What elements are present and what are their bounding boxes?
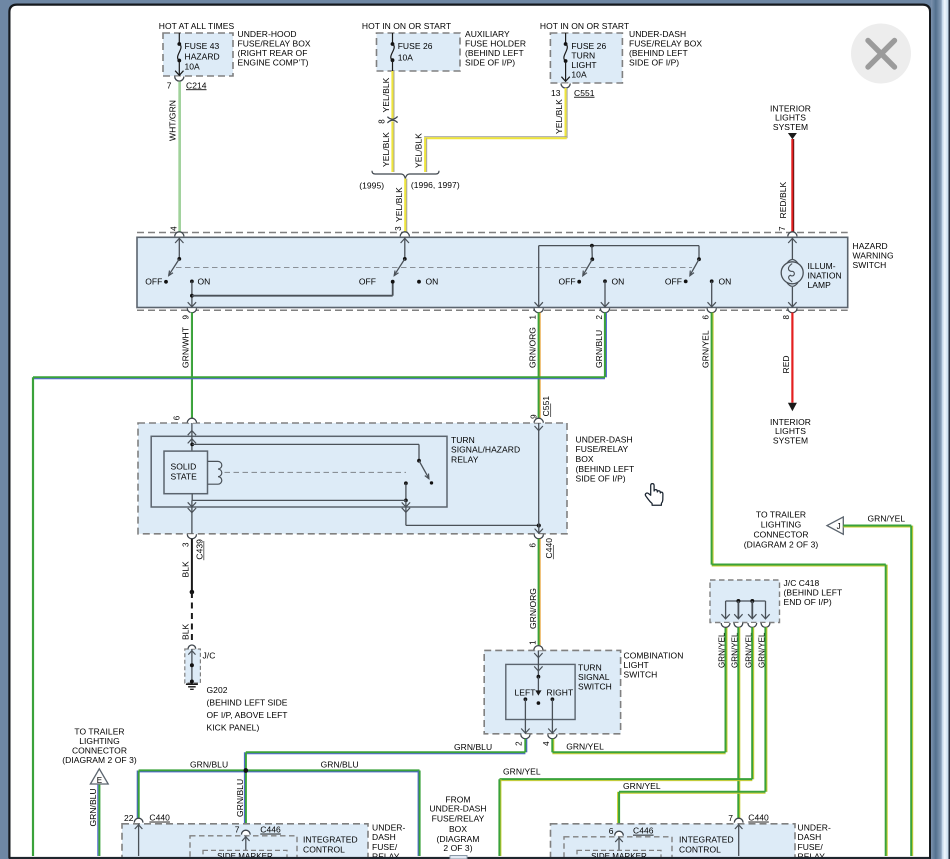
svg-text:KICK PANEL): KICK PANEL) xyxy=(207,723,260,733)
svg-text:FUSE/RELAY: FUSE/RELAY xyxy=(576,444,629,454)
switch S4 ON contact xyxy=(710,279,714,283)
svg-text:LIGHT: LIGHT xyxy=(571,60,596,70)
svg-text:GRN/BLU: GRN/BLU xyxy=(454,742,492,752)
resize handle xyxy=(450,856,467,859)
svg-text:TURN: TURN xyxy=(451,435,475,445)
switch S4 arm xyxy=(690,259,699,275)
J/C C418 bus bar xyxy=(726,600,766,602)
svg-text:HAZARD: HAZARD xyxy=(853,241,888,251)
svg-text:(RIGHT REAR OF: (RIGHT REAR OF xyxy=(238,48,308,58)
ground G202 xyxy=(190,680,194,684)
bus S1-S2 wire xyxy=(192,295,393,297)
fuse F43 HAZARD 10A xyxy=(178,33,180,44)
svg-text:GRN/BLU: GRN/BLU xyxy=(321,759,359,769)
switch S4 pole xyxy=(698,246,700,260)
wire GRN/BLU pin2 xyxy=(604,313,606,378)
right band light xyxy=(942,0,949,859)
svg-text:GRN/YEL: GRN/YEL xyxy=(623,781,661,791)
svg-text:6: 6 xyxy=(528,543,537,548)
relay output leg xyxy=(405,500,407,525)
svg-text:GRN/ORG: GRN/ORG xyxy=(528,588,538,629)
relay switch pole xyxy=(418,444,420,460)
pin 1 bump xyxy=(534,646,543,651)
svg-text:TO TRAILER: TO TRAILER xyxy=(74,726,124,736)
pin 7 bump C440 right xyxy=(734,818,743,822)
integrated control unit right (dashed) xyxy=(564,837,672,859)
svg-text:(DIAGRAM 2 OF 3): (DIAGRAM 2 OF 3) xyxy=(62,755,137,765)
svg-text:FUSE/RELAY BOX: FUSE/RELAY BOX xyxy=(629,38,702,48)
S1 ON to bus junction xyxy=(191,281,193,307)
svg-text:WARNING: WARNING xyxy=(853,250,894,260)
wire YEL/BLK to hazard pin 3 xyxy=(404,179,406,233)
svg-text:22: 22 xyxy=(124,813,134,823)
svg-text:OFF: OFF xyxy=(558,277,575,287)
switch S2 pole xyxy=(404,237,406,259)
svg-text:DASH: DASH xyxy=(372,832,396,842)
svg-text:ON: ON xyxy=(612,277,625,287)
wire GRN/YEL from pin4 xyxy=(551,739,553,753)
turn signal arm xyxy=(537,677,539,693)
relay output junction xyxy=(537,523,541,527)
svg-text:GRN/WHT: GRN/WHT xyxy=(181,327,191,368)
svg-text:ON: ON xyxy=(719,277,732,287)
svg-text:6: 6 xyxy=(702,315,711,320)
wire YEL/BLK horizontal 1996-1997 branch xyxy=(424,137,567,139)
solid state module xyxy=(164,451,208,494)
pin 2 bump xyxy=(521,734,530,739)
svg-text:J/C: J/C xyxy=(203,651,216,661)
svg-text:SWITCH: SWITCH xyxy=(853,260,887,270)
connector triangle J xyxy=(827,517,843,534)
svg-text:2: 2 xyxy=(515,741,524,746)
svg-text:6: 6 xyxy=(609,826,614,836)
svg-text:(BEHIND LEFT: (BEHIND LEFT xyxy=(465,48,524,58)
relay pin 3 bump C439 xyxy=(187,534,196,539)
svg-text:BOX: BOX xyxy=(576,454,594,464)
wire WHT/GRN xyxy=(178,82,180,233)
illumination lamp bulb xyxy=(781,262,803,284)
year split brace xyxy=(372,171,439,179)
J/C C418 leg 1 xyxy=(725,601,727,619)
pin 7 bump xyxy=(788,232,797,237)
svg-text:GRN/BLU: GRN/BLU xyxy=(594,330,604,368)
pin 3 bump xyxy=(400,232,409,237)
svg-text:(BEHIND LEFT: (BEHIND LEFT xyxy=(784,587,843,597)
svg-text:LIGHT: LIGHT xyxy=(624,660,649,670)
svg-text:DASH: DASH xyxy=(798,832,822,842)
svg-text:C446: C446 xyxy=(633,826,654,836)
page bottom edge xyxy=(9,857,931,859)
pin 7 bump C446 xyxy=(241,830,250,834)
pin 4 bump xyxy=(175,232,184,237)
svg-text:13: 13 xyxy=(551,88,561,98)
pin 6 lead right xyxy=(618,837,620,851)
close button xyxy=(851,24,911,84)
svg-text:7: 7 xyxy=(167,80,172,90)
svg-text:CONNECTOR: CONNECTOR xyxy=(753,529,808,539)
svg-text:FUSE 26: FUSE 26 xyxy=(571,41,606,51)
switch S1 pole xyxy=(178,237,180,259)
side marker box right (dashed) xyxy=(577,850,661,859)
svg-text:CONNECTOR: CONNECTOR xyxy=(72,746,127,756)
hazard switch connector dash line top xyxy=(137,232,848,234)
svg-text:RED/BLK: RED/BLK xyxy=(778,181,788,218)
switch S4 OFF contact xyxy=(684,280,688,284)
joint connector J/C xyxy=(185,649,201,683)
svg-text:(DIAGRAM 2 OF 3): (DIAGRAM 2 OF 3) xyxy=(744,539,819,549)
svg-text:C446: C446 xyxy=(260,825,281,835)
system arrow down xyxy=(788,133,797,139)
svg-text:WHT/GRN: WHT/GRN xyxy=(168,100,178,141)
relay pin 6 bump xyxy=(187,418,196,423)
svg-text:STATE: STATE xyxy=(171,472,198,482)
svg-text:OF I/P, ABOVE LEFT: OF I/P, ABOVE LEFT xyxy=(207,710,288,720)
svg-text:C551: C551 xyxy=(541,396,551,417)
switch S3 ON contact xyxy=(603,279,607,283)
relay actuation dashed link xyxy=(225,471,407,473)
svg-text:LIGHTING: LIGHTING xyxy=(79,736,120,746)
svg-text:10A: 10A xyxy=(571,69,587,79)
svg-text:HOT IN ON OR START: HOT IN ON OR START xyxy=(362,21,451,31)
svg-text:ON: ON xyxy=(426,277,439,287)
wire GRN/ORG relay to switch xyxy=(538,539,540,646)
svg-text:CONTROL: CONTROL xyxy=(679,845,721,855)
window background left xyxy=(0,0,9,859)
connector C214 pin 7 xyxy=(175,77,184,82)
svg-text:(BEHIND LEFT: (BEHIND LEFT xyxy=(576,464,635,474)
svg-text:C440: C440 xyxy=(544,538,554,559)
window background top xyxy=(0,0,950,4)
svg-text:RELAY: RELAY xyxy=(451,454,479,464)
svg-text:UNDER-DASH: UNDER-DASH xyxy=(629,29,686,39)
svg-text:3: 3 xyxy=(394,226,403,231)
switch S3 pole xyxy=(590,244,594,248)
under-dash fuse/relay box right (dashed) xyxy=(551,824,796,859)
svg-text:J/C C418: J/C C418 xyxy=(784,578,820,588)
pin 7 lead xyxy=(245,836,247,851)
pin 2 bump xyxy=(600,308,609,313)
svg-text:FUSE 43: FUSE 43 xyxy=(185,41,220,51)
wire GRN/BLU center drop xyxy=(245,752,247,831)
under-dash fuse box (dashed) xyxy=(550,33,622,83)
svg-text:SYSTEM: SYSTEM xyxy=(773,122,808,132)
svg-text:TO TRAILER: TO TRAILER xyxy=(756,509,806,519)
fuse F26 10A aux xyxy=(392,33,394,44)
svg-text:GRN/BLU: GRN/BLU xyxy=(235,779,245,817)
svg-text:7: 7 xyxy=(728,813,733,823)
svg-text:SWITCH: SWITCH xyxy=(578,681,612,691)
svg-text:LEFT: LEFT xyxy=(515,687,536,697)
svg-text:8: 8 xyxy=(782,315,791,320)
junction dot GRN/BLU redraw xyxy=(244,768,249,773)
wire GRN/BLU left drop xyxy=(32,377,34,856)
pin 1 bump xyxy=(534,308,543,313)
svg-text:GRN/YEL: GRN/YEL xyxy=(566,742,604,752)
wire RED pin8 xyxy=(791,313,793,403)
interior lights arrow bottom xyxy=(788,403,797,411)
switch feed xyxy=(537,650,539,676)
svg-text:C440: C440 xyxy=(748,813,769,823)
lamp to pin 8 xyxy=(791,287,793,308)
svg-text:FUSE/: FUSE/ xyxy=(372,842,398,852)
svg-text:7: 7 xyxy=(235,824,240,834)
wire GRN/YEL C418-2 to C440 xyxy=(737,627,739,820)
svg-text:YEL/BLK: YEL/BLK xyxy=(394,187,404,222)
connector C551 pin 13 xyxy=(561,84,570,89)
svg-text:SIDE OF I/P): SIDE OF I/P) xyxy=(465,57,515,67)
svg-text:GRN/YEL: GRN/YEL xyxy=(503,767,541,777)
svg-text:UNDER-: UNDER- xyxy=(798,823,831,833)
svg-text:HOT IN ON OR START: HOT IN ON OR START xyxy=(540,21,629,31)
svg-text:LIGHTING: LIGHTING xyxy=(761,519,802,529)
svg-text:BLK: BLK xyxy=(181,561,191,577)
wire GRN/BLU to pin22 xyxy=(139,769,246,771)
svg-text:4: 4 xyxy=(542,741,551,746)
svg-text:GRN/BLU: GRN/BLU xyxy=(88,788,98,826)
svg-text:SIGNAL: SIGNAL xyxy=(578,672,610,682)
C551 bump xyxy=(534,418,543,423)
pin 7 lead right xyxy=(738,824,740,856)
switch S2 ON contact xyxy=(417,280,421,284)
svg-text:RED: RED xyxy=(781,355,791,373)
relay ground leg xyxy=(191,500,193,533)
svg-text:GRN/YEL: GRN/YEL xyxy=(718,632,727,668)
connector triangle E xyxy=(90,769,108,784)
pin 22 lead xyxy=(138,824,140,856)
svg-text:YEL/BLK: YEL/BLK xyxy=(381,77,391,112)
wire GRN/BLU to right drop xyxy=(246,769,420,771)
svg-text:COMBINATION: COMBINATION xyxy=(624,650,684,660)
svg-text:SWITCH: SWITCH xyxy=(624,669,658,679)
svg-text:INTEGRATED: INTEGRATED xyxy=(303,834,358,844)
switch S2 OFF contact xyxy=(391,280,395,284)
pin 6 bump xyxy=(707,308,716,313)
svg-text:YEL/BLK: YEL/BLK xyxy=(554,99,564,134)
wire GRN/YEL right drop xyxy=(885,565,887,856)
hazard warning switch body xyxy=(137,237,848,307)
wire YEL/BLK from turn fuse xyxy=(564,88,566,138)
svg-text:UNDER-: UNDER- xyxy=(372,823,405,833)
svg-text:10A: 10A xyxy=(185,61,201,71)
svg-text:GRN/YEL: GRN/YEL xyxy=(701,330,711,368)
wire GRN/YEL C418-4 xyxy=(764,627,766,792)
svg-text:SIDE OF I/P): SIDE OF I/P) xyxy=(629,57,679,67)
svg-text:BOX: BOX xyxy=(449,824,467,834)
svg-text:OFF: OFF xyxy=(359,277,376,287)
svg-text:10A: 10A xyxy=(398,52,414,62)
wire BLK dashed continuation xyxy=(191,592,193,646)
wire GRN/YEL pin6 xyxy=(711,313,713,565)
joint connector J/C C418 (dashed) xyxy=(710,580,780,623)
pin 6 bump C446 right xyxy=(615,831,624,835)
svg-text:HAZARD: HAZARD xyxy=(185,51,220,61)
svg-text:LAMP: LAMP xyxy=(808,280,832,290)
svg-text:1: 1 xyxy=(529,315,538,320)
J/C C418 bumps xyxy=(721,623,730,627)
svg-text:FUSE/: FUSE/ xyxy=(798,842,824,852)
svg-text:FUSE/RELAY BOX: FUSE/RELAY BOX xyxy=(238,38,311,48)
svg-text:HOT AT ALL TIMES: HOT AT ALL TIMES xyxy=(159,21,235,31)
svg-text:6: 6 xyxy=(172,415,181,420)
junction GRN/BLU xyxy=(244,768,249,773)
wire GRN/YEL pin6 horizontal xyxy=(712,563,886,565)
svg-text:YEL/BLK: YEL/BLK xyxy=(414,133,424,168)
svg-text:OFF: OFF xyxy=(145,277,162,287)
mechanical link dashed xyxy=(176,267,692,269)
J/C C418 leg 2 xyxy=(736,599,740,603)
svg-text:3: 3 xyxy=(182,542,191,547)
svg-text:9: 9 xyxy=(182,315,191,320)
svg-text:(1996, 1997): (1996, 1997) xyxy=(411,180,460,190)
wire GRN/BLU from pin2 xyxy=(524,739,526,753)
svg-text:SIGNAL/HAZARD: SIGNAL/HAZARD xyxy=(451,445,520,455)
under-dash fuse/relay box (dashed) xyxy=(138,423,567,534)
auxiliary fuse holder (dashed) xyxy=(377,33,461,71)
svg-text:BLK: BLK xyxy=(181,624,191,640)
svg-text:2: 2 xyxy=(595,315,604,320)
pin 4 bump xyxy=(548,734,557,739)
inline connector on YEL/BLK xyxy=(387,116,397,119)
svg-text:4: 4 xyxy=(169,226,178,231)
svg-text:8: 8 xyxy=(378,119,387,124)
svg-text:INATION: INATION xyxy=(808,270,842,280)
svg-text:GRN/ORG: GRN/ORG xyxy=(528,327,538,368)
svg-text:SIDE OF I/P): SIDE OF I/P) xyxy=(576,474,626,484)
wire YEL/BLK pin 8 segment xyxy=(391,71,393,119)
svg-text:UNDER-DASH: UNDER-DASH xyxy=(576,434,633,444)
svg-text:FUSE/RELAY: FUSE/RELAY xyxy=(432,813,485,823)
switch S3 OFF contact xyxy=(577,280,581,284)
pin 8 bump xyxy=(788,308,797,313)
wire GRN/ORG pin1 to C551 xyxy=(538,313,540,419)
mouse cursor xyxy=(645,484,663,506)
svg-text:C214: C214 xyxy=(186,80,207,90)
svg-text:END OF I/P): END OF I/P) xyxy=(784,597,832,607)
side marker box left (dashed) xyxy=(203,850,287,859)
svg-text:7: 7 xyxy=(778,226,787,231)
hazard switch connector dash line bottom xyxy=(137,309,848,311)
svg-text:(BEHIND LEFT: (BEHIND LEFT xyxy=(629,48,688,58)
svg-text:ON: ON xyxy=(198,277,211,287)
wire GRN/WHT pin9 to relay xyxy=(191,313,193,419)
svg-text:J: J xyxy=(837,522,841,531)
svg-text:FUSE 26: FUSE 26 xyxy=(398,41,433,51)
wire GRN/YEL C418-3 xyxy=(751,627,753,779)
svg-text:1: 1 xyxy=(528,640,537,645)
svg-text:(1995): (1995) xyxy=(359,180,384,190)
switch S1 ON contact xyxy=(190,280,194,284)
svg-text:OFF: OFF xyxy=(665,277,682,287)
svg-text:GRN/YEL: GRN/YEL xyxy=(868,514,906,524)
illumination lamp socket bottom arc xyxy=(787,283,798,287)
svg-text:INTEGRATED: INTEGRATED xyxy=(679,834,734,844)
wire YEL/BLK below connector xyxy=(391,121,393,172)
wire BLK solid xyxy=(191,539,193,592)
pin 9 bump xyxy=(187,308,196,313)
wire RED/BLK xyxy=(791,139,793,233)
svg-text:TURN: TURN xyxy=(571,50,595,60)
relay switch arm xyxy=(419,461,429,479)
illumination lamp socket top arc xyxy=(787,260,798,264)
fuse F26 TURN LIGHT 10A xyxy=(565,33,567,44)
fuse box under-hood (dashed) xyxy=(163,33,233,76)
svg-text:C551: C551 xyxy=(574,88,595,98)
svg-text:SYSTEM: SYSTEM xyxy=(773,436,808,446)
illumination lamp feed xyxy=(791,237,793,260)
bus pin1-S3-S4 wire xyxy=(539,245,699,247)
relay pin 6 bump C440 xyxy=(534,534,543,539)
relay internal tie xyxy=(192,499,406,501)
svg-text:ENGINE COMP’T): ENGINE COMP’T) xyxy=(238,57,309,67)
svg-text:G202: G202 xyxy=(207,685,228,695)
switch S1 OFF contact xyxy=(164,280,168,284)
svg-text:SOLID: SOLID xyxy=(171,461,197,471)
relay bus to contact xyxy=(192,443,419,445)
switch S3 arm xyxy=(583,259,593,275)
wire GRN/BLU horizontal run xyxy=(33,376,605,378)
relay coil xyxy=(208,461,222,484)
svg-text:(BEHIND LEFT SIDE: (BEHIND LEFT SIDE xyxy=(207,698,288,708)
right band slate xyxy=(931,0,942,859)
relay contact xyxy=(404,481,408,485)
svg-text:ILLUM-: ILLUM- xyxy=(808,261,836,271)
svg-text:AUXILIARY: AUXILIARY xyxy=(465,29,510,39)
svg-text:UNDER-HOOD: UNDER-HOOD xyxy=(238,29,297,39)
wire GRN/BLU trailer drop xyxy=(98,785,100,856)
svg-text:2 OF 3): 2 OF 3) xyxy=(443,843,472,853)
J/C C418 leg 4 xyxy=(765,601,767,619)
switch S1 arm xyxy=(169,259,180,275)
switch S2 arm xyxy=(394,259,405,275)
splice dot xyxy=(190,590,195,595)
combination light switch (dashed) xyxy=(484,650,620,733)
under-dash fuse/relay box left (dashed) xyxy=(122,824,368,859)
turn signal/hazard relay body xyxy=(151,436,447,507)
svg-text:E: E xyxy=(97,776,102,785)
svg-text:C439: C439 xyxy=(194,539,204,560)
svg-text:GRN/BLU: GRN/BLU xyxy=(190,759,228,769)
svg-text:YEL/BLK: YEL/BLK xyxy=(381,132,391,167)
svg-text:RIGHT: RIGHT xyxy=(547,687,574,697)
wire GRN/YEL trailer xyxy=(843,524,911,526)
svg-text:CONTROL: CONTROL xyxy=(303,845,345,855)
svg-text:UNDER-DASH: UNDER-DASH xyxy=(429,803,486,813)
svg-text:C440: C440 xyxy=(149,813,170,823)
turn signal switch body xyxy=(506,664,575,719)
svg-text:FUSE HOLDER: FUSE HOLDER xyxy=(465,38,526,48)
svg-text:TURN: TURN xyxy=(578,662,602,672)
right band dark edge xyxy=(949,0,950,859)
integrated control unit left (dashed) xyxy=(190,836,297,859)
pin 22 bump C440 xyxy=(134,818,143,822)
relay feed line xyxy=(191,423,193,451)
J/C C418 leg 3 xyxy=(750,599,754,603)
